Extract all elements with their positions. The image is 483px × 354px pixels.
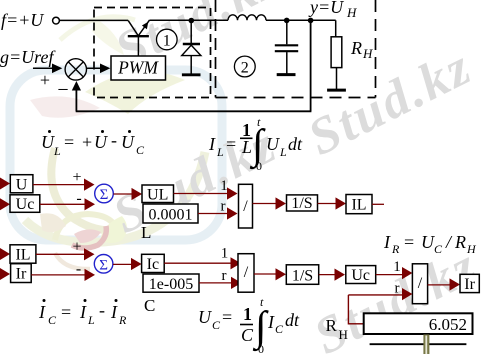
svg-text:R: R [391,242,400,256]
wire sum1 to UL [113,193,133,195]
inductor L1 [228,15,266,20]
svg-text:U: U [121,132,135,152]
integrator block 1/S row2 [286,265,318,285]
wire Ic to div2 [164,262,232,264]
svg-text:IL: IL [15,247,30,264]
block Ir out [460,274,479,292]
svg-text:I: I [267,312,275,332]
feedback wire [76,21,312,111]
svg-text:g=Uref: g=Uref [0,47,56,67]
transistor Q1 [128,20,150,56]
capacitor C1 [275,21,298,75]
wire div1 to 1/S [253,203,278,205]
wire UL to div1 [174,193,230,195]
junction diode node [189,18,195,24]
svg-text:1: 1 [163,33,171,50]
input port arrow U [0,178,10,190]
svg-text:1: 1 [393,259,401,275]
svg-text:C: C [275,322,284,336]
wire 1/S to Uc out [319,274,337,276]
svg-text:R: R [350,38,362,58]
input port arrow IL [0,248,10,260]
circled 2 [234,56,255,77]
block Ir in [11,264,32,283]
svg-text:U: U [198,307,212,327]
circled 1 [157,29,178,50]
svg-text:Uc: Uc [16,196,35,213]
svg-text:r: r [222,268,227,284]
block Uc [10,195,40,213]
input arrow g [33,67,55,69]
svg-text:R: R [326,316,338,335]
svg-text:1/S: 1/S [291,195,312,212]
svg-text:-: - [76,261,81,278]
svg-text:U: U [94,132,108,152]
svg-text:f=+U: f=+U [1,10,44,30]
svg-text:IL: IL [351,197,366,214]
svg-text:1: 1 [220,178,228,194]
slider handle [423,335,429,354]
equation IR = Uc / RH [383,232,477,256]
mixer output arrow to PWM [87,67,104,69]
block L gain 0.0001 [143,204,198,223]
svg-text:1: 1 [221,246,229,262]
svg-text:−: − [57,79,68,101]
equation IL = 1/L int UL dt [208,115,303,173]
svg-text:2: 2 [241,60,249,77]
svg-text:H: H [346,5,357,20]
block Ic [142,254,165,272]
wire 1/S to IL [318,203,338,205]
dashed box 2 right edge [375,0,377,98]
input port arrow Uc [0,198,10,210]
svg-text:-: - [76,190,81,207]
svg-text:L: L [87,313,95,327]
svg-text:I: I [79,302,87,322]
svg-text:y=U: y=U [308,0,344,17]
svg-text:r: r [395,281,400,297]
divide block 1 [239,184,253,228]
svg-text:dt: dt [288,134,303,154]
svg-text:+: + [72,169,81,186]
logo watermark rounded square [10,17,222,269]
svg-text:L: L [216,145,224,159]
dashed box 2 bottom edge [216,97,376,99]
svg-text:L: L [53,144,61,158]
svg-text:UL: UL [147,186,168,203]
svg-text:+: + [72,239,81,256]
wire div2 to 1/S row2 [254,273,278,275]
diode VD1 [182,21,201,75]
svg-text:C: C [434,242,443,256]
svg-text:U: U [16,177,28,194]
input port arrow Ir [0,268,10,280]
divide block 2 [238,254,254,293]
svg-text:C: C [136,143,145,157]
block IL out [346,195,372,214]
wire U to sum [33,184,86,186]
block Uc out [346,266,376,284]
svg-text:L: L [141,223,151,242]
svg-text:dt: dt [285,310,300,330]
svg-text:L: L [241,137,252,157]
feedback RH wire [348,295,404,325]
wire sum2 to Ic [113,263,133,265]
wire Uc out to div3 [376,274,404,276]
svg-text:I: I [383,232,391,252]
block UL [142,185,174,203]
svg-text:I: I [110,302,118,322]
junction output node [308,18,314,24]
wire Uc to sum [40,203,86,205]
node f input terminal [53,17,60,24]
PWM box [111,56,166,80]
svg-text:L: L [279,145,287,159]
junction capacitor node [284,18,290,24]
svg-text:0: 0 [258,342,264,354]
svg-text:/: / [418,275,423,292]
svg-text:H: H [339,327,348,342]
svg-text:+: + [82,132,92,152]
dashed box 2 left edge [215,0,217,98]
wire IL out stub [372,203,384,205]
svg-text:C: C [212,318,221,332]
wire Ir to sum2 [31,274,86,276]
svg-text:Uc: Uc [351,267,370,284]
block IL in [10,245,36,263]
wire from terminal to transistor [60,19,129,21]
svg-text:=: = [61,302,71,322]
svg-text:/: / [243,198,248,215]
wire inductor to RH [266,19,336,21]
svg-text:1/S: 1/S [292,268,313,285]
svg-text:/: / [244,264,249,281]
equation Uc = 1/C int Ic dt [198,295,300,354]
svg-text:Ir: Ir [16,266,27,283]
svg-text:Ic: Ic [147,256,159,273]
svg-text:Stud.kz: Stud.kz [300,38,481,167]
svg-text:U: U [266,134,280,154]
svg-text:H: H [466,242,477,256]
svg-text:C: C [48,313,57,327]
svg-text:Ir: Ir [464,276,475,293]
svg-text:6.052: 6.052 [429,315,467,334]
svg-text:1: 1 [243,304,252,324]
svg-text:Σ: Σ [99,257,108,273]
svg-text:R: R [118,313,127,327]
svg-text:=: = [222,307,232,327]
svg-text:Σ: Σ [100,187,109,203]
wire 0.0001 to div1 [198,213,229,215]
svg-text:C: C [144,296,155,315]
svg-text:U: U [41,132,55,152]
svg-text:+: + [40,70,50,90]
dashed box 1 [94,8,211,98]
svg-text:I: I [208,134,216,154]
wire 1e-005 to div2 [199,282,233,284]
svg-text:0: 0 [256,159,262,173]
wire transistor to inductor [150,19,228,21]
svg-text:-: - [111,130,117,150]
equation UL' = +U' - Uc' [41,130,145,158]
block U [10,175,33,193]
svg-text:U: U [421,232,435,252]
slider rail [370,343,467,345]
sum block 2 [94,254,113,273]
resistor RH [327,20,346,90]
svg-text:-: - [99,300,105,320]
svg-text:H: H [362,46,373,61]
svg-text:=: = [226,134,236,154]
divide block 3 [412,264,427,304]
sum block 1 [95,184,114,203]
integrator block 1/S row1 [287,195,318,211]
svg-text:r: r [221,199,226,215]
slider gain display 6.052 [364,313,473,334]
equation Ic' = IL' - IR' [38,299,127,327]
wire IL to sum2 [36,253,86,255]
block C gain 1e-005 [143,274,199,292]
mixer (comparator) circle [65,59,86,80]
svg-text:=: = [64,132,74,152]
wire div3 to Ir out [428,284,452,286]
svg-text:R: R [454,232,466,252]
svg-text:=: = [404,232,414,252]
svg-text:0.0001: 0.0001 [149,206,193,223]
svg-text:C: C [241,325,254,345]
svg-text:PWM: PWM [117,58,159,78]
svg-text:1e-005: 1e-005 [149,276,193,293]
svg-text:I: I [38,302,46,322]
